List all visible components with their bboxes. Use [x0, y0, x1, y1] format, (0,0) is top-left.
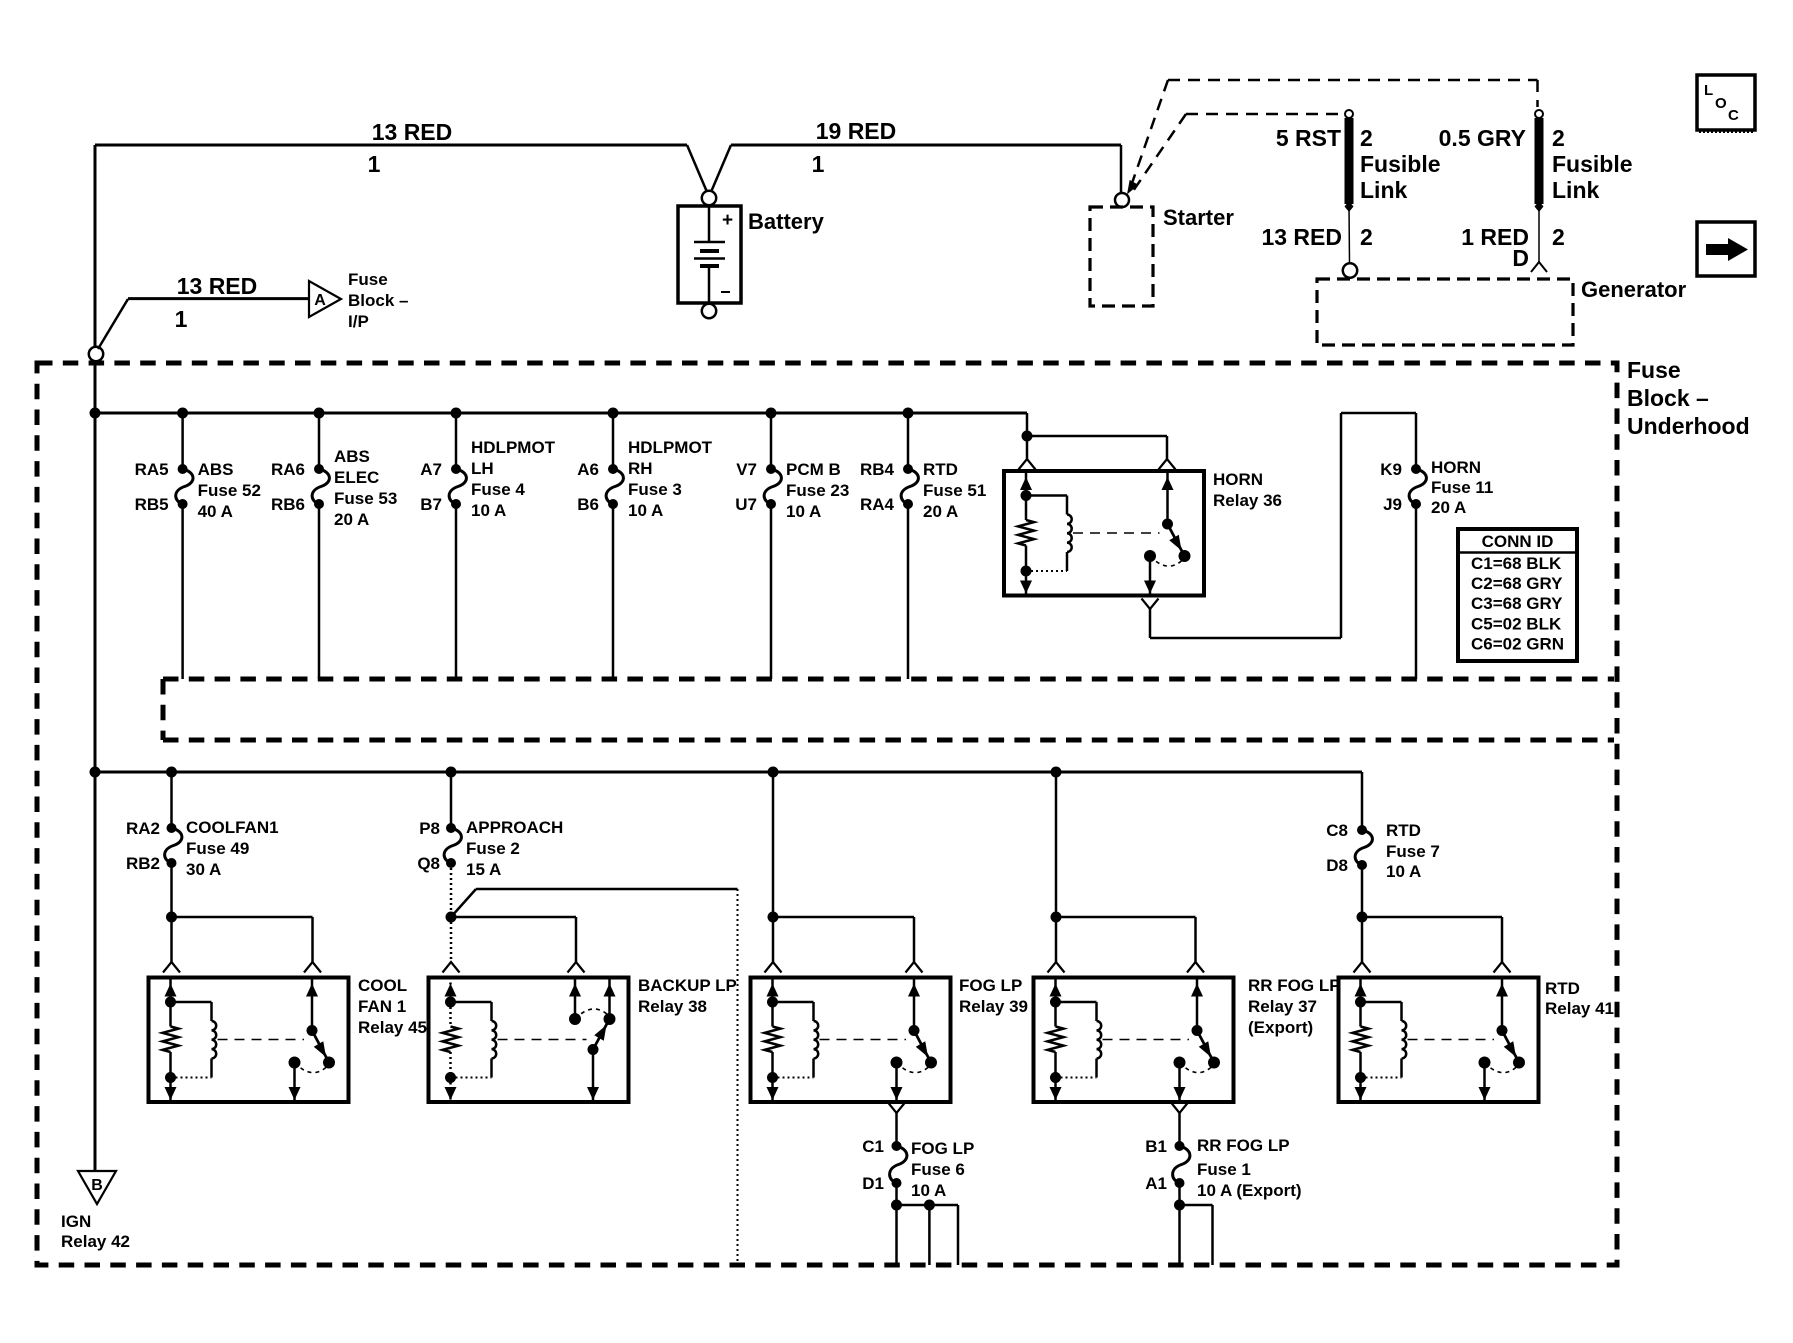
svg-text:B7: B7	[420, 495, 442, 514]
svg-text:Fuse 4: Fuse 4	[471, 480, 525, 499]
svg-text:RA2: RA2	[126, 819, 160, 838]
svg-text:(Export): (Export)	[1248, 1018, 1313, 1037]
svg-text:P8: P8	[419, 819, 440, 838]
svg-text:1: 1	[175, 306, 188, 332]
svg-text:1: 1	[368, 151, 381, 177]
svg-text:ABS: ABS	[334, 447, 370, 466]
svg-text:Fuse 51: Fuse 51	[923, 481, 986, 500]
svg-text:O: O	[1715, 95, 1727, 112]
svg-text:30 A: 30 A	[186, 860, 221, 879]
svg-text:Block –: Block –	[348, 291, 408, 310]
svg-text:Fuse 11: Fuse 11	[1431, 478, 1493, 497]
svg-text:RB2: RB2	[126, 854, 160, 873]
svg-text:Relay 45: Relay 45	[358, 1018, 427, 1037]
svg-text:20 A: 20 A	[923, 502, 958, 521]
svg-text:RA4: RA4	[860, 495, 895, 514]
svg-text:C5=02 BLK: C5=02 BLK	[1471, 614, 1562, 633]
svg-text:IGN: IGN	[61, 1212, 91, 1231]
svg-text:CONN ID: CONN ID	[1482, 532, 1554, 551]
svg-text:HDLPMOT: HDLPMOT	[628, 438, 713, 457]
svg-text:10 A (Export): 10 A (Export)	[1197, 1181, 1302, 1200]
svg-text:B: B	[91, 1177, 103, 1194]
svg-text:COOLFAN1: COOLFAN1	[186, 818, 279, 837]
svg-text:RB6: RB6	[271, 495, 305, 514]
svg-text:I/P: I/P	[348, 312, 369, 331]
svg-text:Fuse: Fuse	[1627, 357, 1681, 383]
svg-text:D1: D1	[862, 1174, 884, 1193]
svg-text:RTD: RTD	[923, 460, 958, 479]
svg-text:Relay 39: Relay 39	[959, 997, 1028, 1016]
svg-text:C1=68 BLK: C1=68 BLK	[1471, 554, 1562, 573]
svg-text:C: C	[1728, 107, 1739, 124]
svg-text:C6=02 GRN: C6=02 GRN	[1471, 634, 1564, 653]
svg-text:RTD: RTD	[1545, 979, 1580, 998]
svg-text:Fuse 1: Fuse 1	[1197, 1160, 1251, 1179]
svg-text:Block –: Block –	[1627, 385, 1709, 411]
svg-text:+: +	[722, 210, 733, 231]
svg-text:RR FOG LP: RR FOG LP	[1197, 1136, 1290, 1155]
svg-text:Fuse 53: Fuse 53	[334, 489, 397, 508]
svg-text:15 A: 15 A	[466, 860, 501, 879]
svg-text:FOG LP: FOG LP	[911, 1139, 974, 1158]
svg-text:10 A: 10 A	[471, 501, 506, 520]
svg-text:Fusible: Fusible	[1552, 151, 1633, 177]
svg-text:A6: A6	[577, 460, 599, 479]
svg-text:10 A: 10 A	[911, 1181, 946, 1200]
svg-text:Relay 37: Relay 37	[1248, 997, 1317, 1016]
svg-text:HORN: HORN	[1431, 458, 1481, 477]
svg-text:Fuse 2: Fuse 2	[466, 839, 520, 858]
svg-text:2: 2	[1360, 224, 1373, 250]
svg-text:B1: B1	[1145, 1137, 1167, 1156]
svg-text:A7: A7	[420, 460, 442, 479]
svg-text:D: D	[1512, 245, 1529, 271]
svg-text:RA6: RA6	[271, 460, 305, 479]
svg-text:Fuse 23: Fuse 23	[786, 481, 849, 500]
svg-text:LH: LH	[471, 459, 494, 478]
svg-text:2: 2	[1360, 125, 1373, 151]
svg-text:Fuse: Fuse	[348, 270, 388, 289]
svg-text:D8: D8	[1326, 856, 1348, 875]
svg-text:A1: A1	[1145, 1174, 1167, 1193]
svg-text:Relay 36: Relay 36	[1213, 491, 1282, 510]
svg-text:19 RED: 19 RED	[816, 118, 897, 144]
svg-text:ABS: ABS	[198, 460, 234, 479]
svg-text:13 RED: 13 RED	[177, 273, 258, 299]
svg-text:Fusible: Fusible	[1360, 151, 1441, 177]
svg-text:Fuse 7: Fuse 7	[1386, 842, 1440, 861]
svg-text:C1: C1	[862, 1137, 884, 1156]
svg-text:U7: U7	[735, 495, 757, 514]
svg-text:K9: K9	[1380, 460, 1402, 479]
svg-text:HDLPMOT: HDLPMOT	[471, 438, 556, 457]
svg-text:FOG LP: FOG LP	[959, 976, 1022, 995]
svg-text:A: A	[314, 292, 326, 309]
svg-text:RH: RH	[628, 459, 653, 478]
svg-text:HORN: HORN	[1213, 470, 1263, 489]
svg-text:Link: Link	[1552, 177, 1599, 203]
svg-text:1: 1	[812, 151, 825, 177]
svg-text:40 A: 40 A	[198, 502, 233, 521]
svg-text:2: 2	[1552, 125, 1565, 151]
svg-text:Q8: Q8	[417, 854, 440, 873]
svg-text:13 RED: 13 RED	[1261, 224, 1342, 250]
svg-text:Fuse 49: Fuse 49	[186, 839, 249, 858]
svg-text:Underhood: Underhood	[1627, 413, 1750, 439]
svg-text:Starter: Starter	[1163, 205, 1234, 230]
svg-text:Fuse 6: Fuse 6	[911, 1160, 965, 1179]
svg-text:PCM B: PCM B	[786, 460, 841, 479]
svg-text:Generator: Generator	[1581, 277, 1687, 302]
svg-text:RB4: RB4	[860, 460, 895, 479]
svg-text:COOL: COOL	[358, 976, 407, 995]
svg-text:10 A: 10 A	[628, 501, 663, 520]
svg-text:0.5 GRY: 0.5 GRY	[1439, 125, 1526, 151]
svg-text:20 A: 20 A	[334, 510, 369, 529]
svg-text:ELEC: ELEC	[334, 468, 379, 487]
svg-text:Fuse 52: Fuse 52	[198, 481, 261, 500]
svg-text:10 A: 10 A	[1386, 862, 1421, 881]
svg-text:Relay 42: Relay 42	[61, 1232, 130, 1251]
svg-text:RR FOG LP: RR FOG LP	[1248, 976, 1341, 995]
svg-text:Link: Link	[1360, 177, 1407, 203]
svg-text:L: L	[1704, 82, 1713, 99]
svg-text:Fuse 3: Fuse 3	[628, 480, 682, 499]
svg-text:BACKUP LP: BACKUP LP	[638, 976, 737, 995]
svg-text:FAN 1: FAN 1	[358, 997, 406, 1016]
svg-text:Relay 41: Relay 41	[1545, 999, 1614, 1018]
svg-text:RB5: RB5	[135, 495, 169, 514]
svg-text:RTD: RTD	[1386, 821, 1421, 840]
svg-text:RA5: RA5	[135, 460, 169, 479]
svg-text:20 A: 20 A	[1431, 498, 1466, 517]
svg-text:Battery: Battery	[748, 209, 825, 234]
svg-text:5 RST: 5 RST	[1276, 125, 1341, 151]
svg-text:C2=68 GRY: C2=68 GRY	[1471, 574, 1563, 593]
svg-text:10 A: 10 A	[786, 502, 821, 521]
svg-text:13 RED: 13 RED	[372, 119, 453, 145]
svg-text:J9: J9	[1383, 495, 1402, 514]
svg-text:Relay 38: Relay 38	[638, 997, 707, 1016]
svg-text:C3=68 GRY: C3=68 GRY	[1471, 594, 1563, 613]
svg-text:2: 2	[1552, 224, 1565, 250]
svg-text:APPROACH: APPROACH	[466, 818, 563, 837]
svg-text:B6: B6	[577, 495, 599, 514]
svg-text:V7: V7	[736, 460, 757, 479]
svg-text:C8: C8	[1326, 821, 1348, 840]
